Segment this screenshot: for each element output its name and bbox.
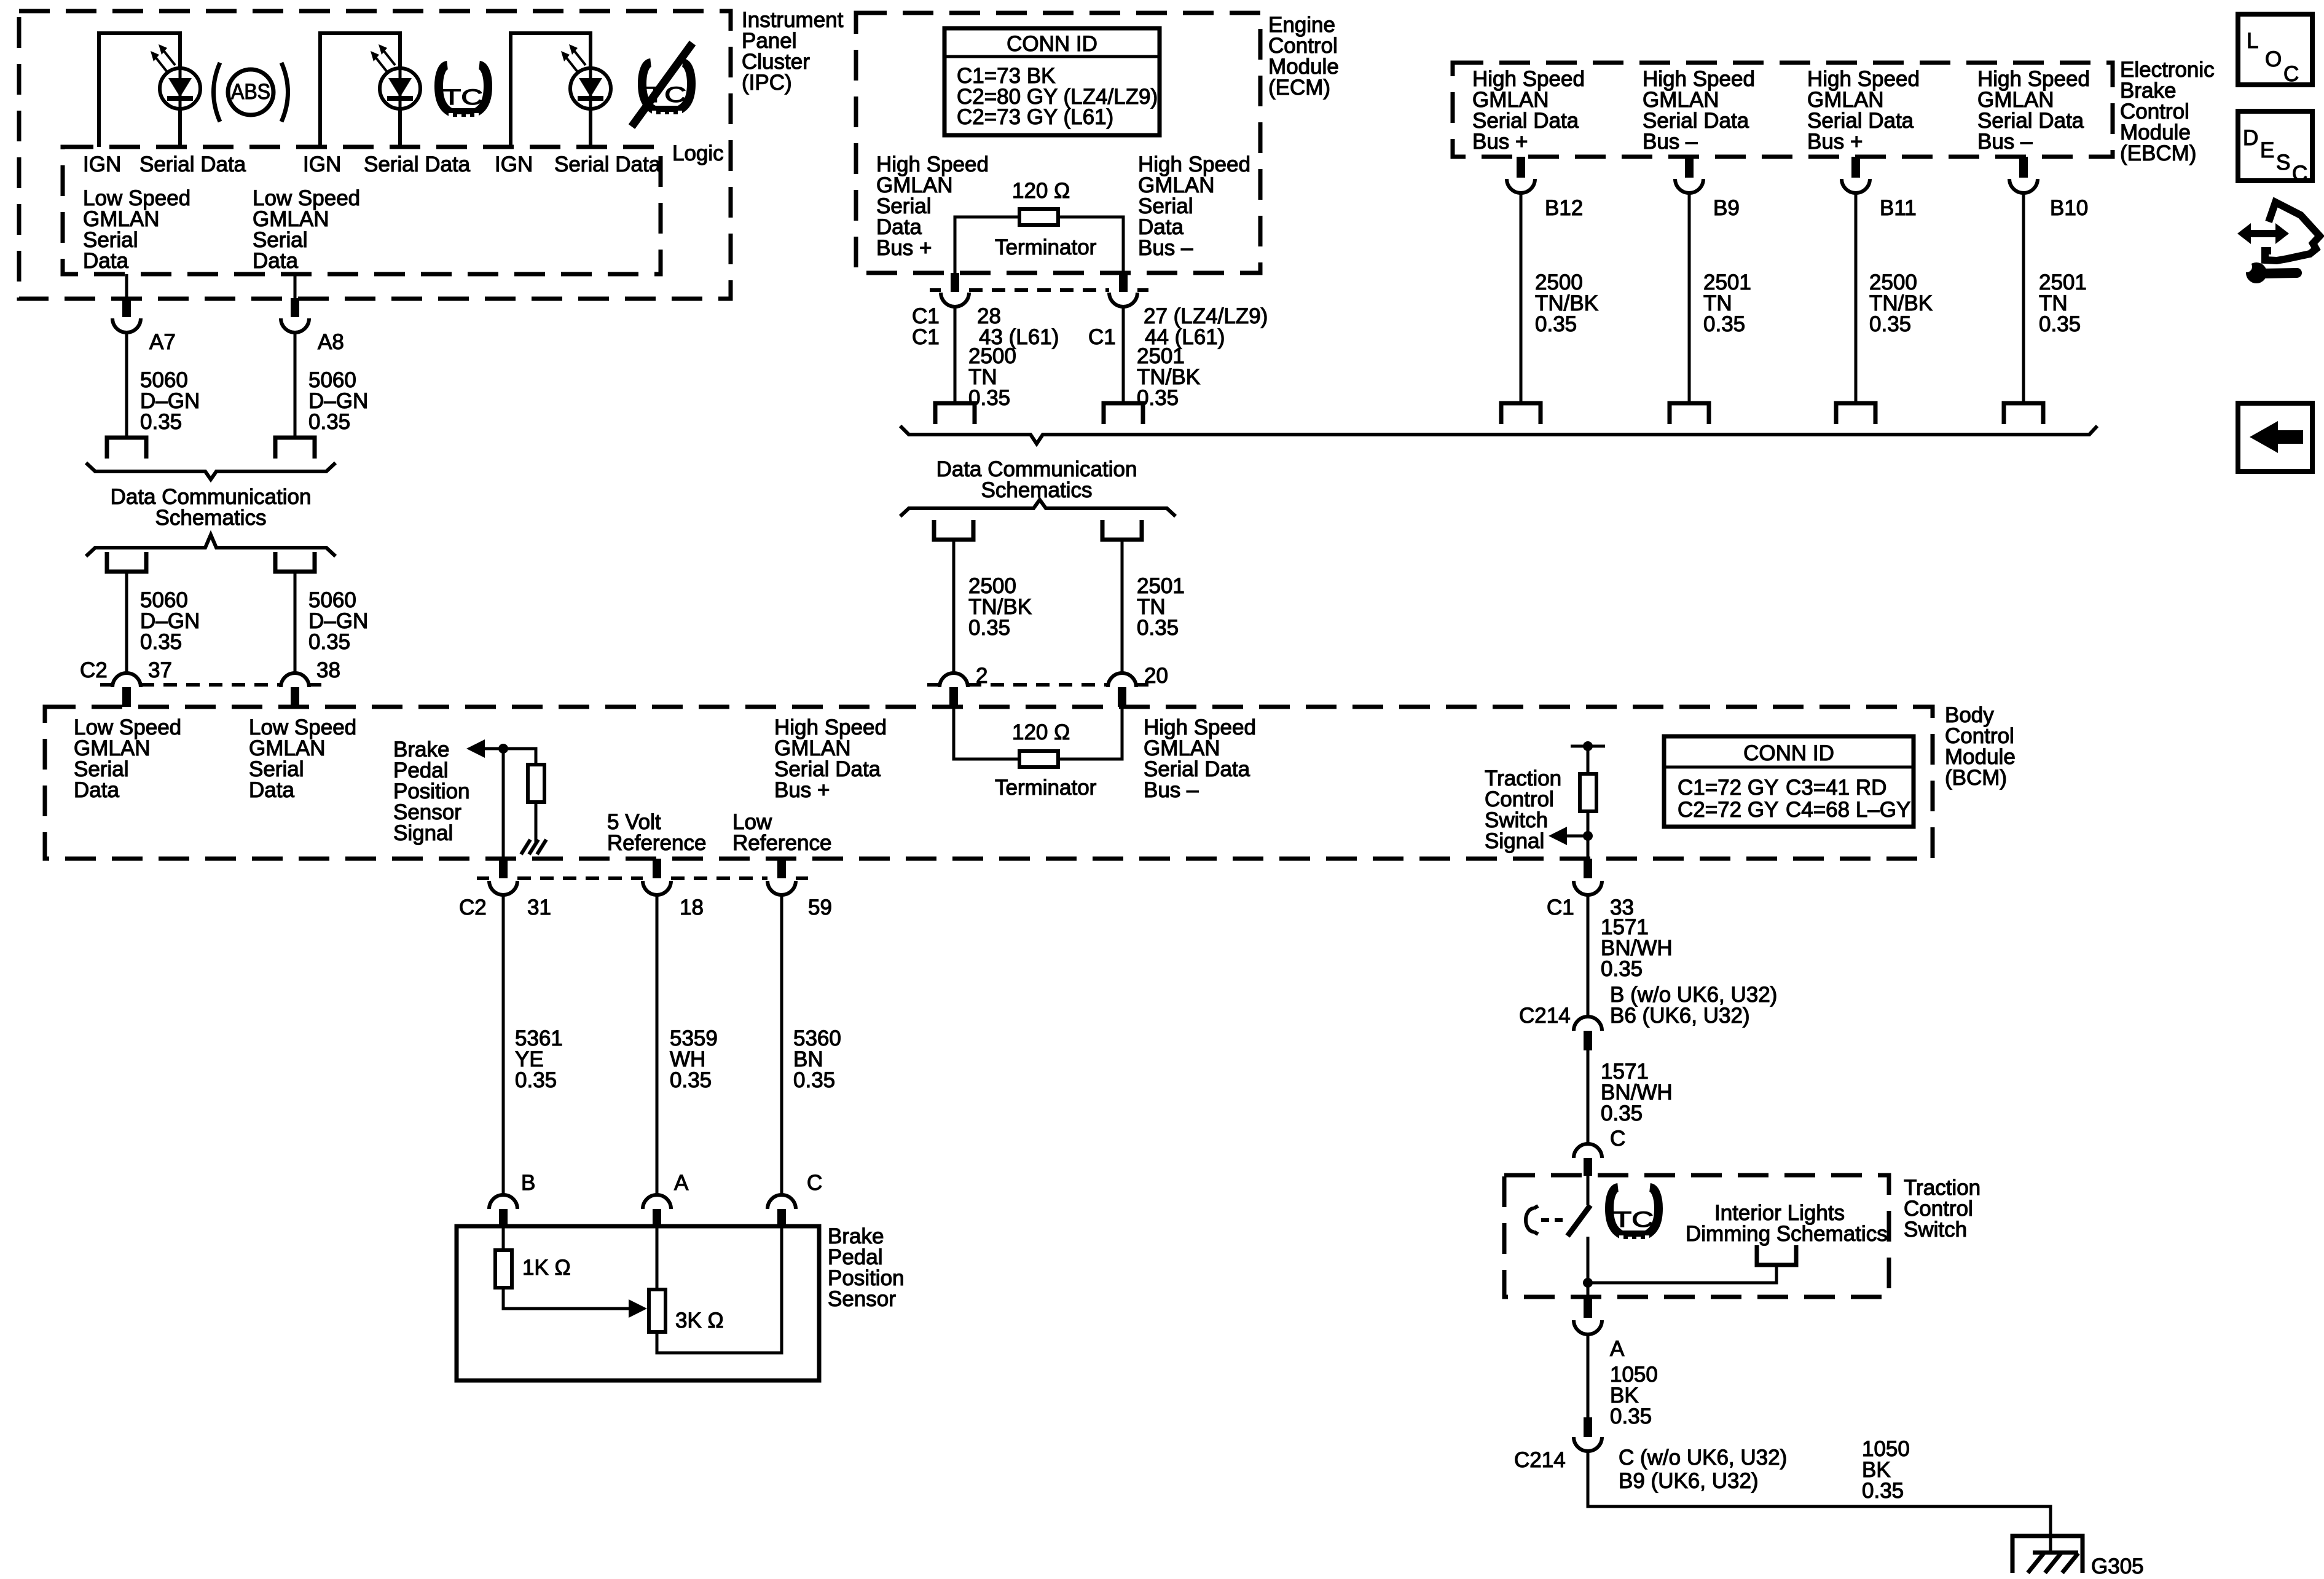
svg-text:C4=68 L–GY: C4=68 L–GY xyxy=(1786,798,1910,822)
svg-text:Data: Data xyxy=(83,249,128,273)
svg-text:D: D xyxy=(2243,126,2258,150)
svg-text:Bus –: Bus – xyxy=(1138,236,1193,260)
svg-text:(ECM): (ECM) xyxy=(1268,76,1330,100)
svg-text:IGN: IGN xyxy=(83,152,121,176)
svg-text:Serial Data: Serial Data xyxy=(554,152,661,176)
svg-text:C: C xyxy=(2292,162,2307,186)
svg-text:0.35: 0.35 xyxy=(308,630,350,654)
svg-text:B: B xyxy=(521,1171,535,1195)
svg-text:L: L xyxy=(2247,29,2258,53)
svg-text:Schematics: Schematics xyxy=(155,506,267,530)
svg-text:0.35: 0.35 xyxy=(308,410,350,434)
svg-text:B9: B9 xyxy=(1713,196,1740,220)
svg-text:Signal: Signal xyxy=(393,821,453,845)
svg-text:B11: B11 xyxy=(1880,196,1917,220)
svg-text:Bus –: Bus – xyxy=(1977,130,2033,154)
svg-text:Terminator: Terminator xyxy=(995,776,1097,800)
svg-text:0.35: 0.35 xyxy=(670,1068,712,1092)
svg-text:Serial Data: Serial Data xyxy=(139,152,246,176)
svg-text:0.35: 0.35 xyxy=(140,630,182,654)
svg-text:0.35: 0.35 xyxy=(1862,1479,1904,1503)
svg-text:Sensor: Sensor xyxy=(828,1287,896,1311)
svg-text:ABS: ABS xyxy=(231,80,270,104)
svg-text:0.35: 0.35 xyxy=(793,1068,835,1092)
svg-text:CONN ID: CONN ID xyxy=(1743,741,1834,765)
svg-text:0.35: 0.35 xyxy=(140,410,182,434)
svg-text:120 Ω: 120 Ω xyxy=(1012,179,1070,203)
svg-text:0.35: 0.35 xyxy=(1703,312,1745,336)
svg-text:C3=41 RD: C3=41 RD xyxy=(1786,776,1886,800)
svg-text:C214: C214 xyxy=(1519,1004,1571,1028)
svg-text:37: 37 xyxy=(148,658,172,682)
svg-text:0.35: 0.35 xyxy=(1610,1404,1652,1428)
svg-text:Bus –: Bus – xyxy=(1643,130,1698,154)
svg-text:IGN: IGN xyxy=(303,152,341,176)
svg-text:IGN: IGN xyxy=(495,152,533,176)
svg-text:Terminator: Terminator xyxy=(995,235,1097,259)
svg-text:Data: Data xyxy=(249,778,294,802)
svg-text:Bus +: Bus + xyxy=(774,778,830,802)
svg-text:A: A xyxy=(674,1171,689,1195)
svg-text:B6 (UK6, U32): B6 (UK6, U32) xyxy=(1610,1004,1750,1028)
svg-text:B9 (UK6, U32): B9 (UK6, U32) xyxy=(1619,1469,1759,1493)
svg-text:Serial Data: Serial Data xyxy=(364,152,471,176)
svg-text:C: C xyxy=(2283,62,2299,86)
svg-text:3K Ω: 3K Ω xyxy=(675,1309,724,1333)
svg-text:Signal: Signal xyxy=(1485,829,1544,853)
svg-text:1K Ω: 1K Ω xyxy=(522,1256,571,1280)
svg-text:0.35: 0.35 xyxy=(1601,957,1643,981)
svg-text:0.35: 0.35 xyxy=(1869,312,1911,336)
svg-text:0.35: 0.35 xyxy=(515,1068,557,1092)
svg-text:C214: C214 xyxy=(1514,1448,1566,1472)
svg-text:(IPC): (IPC) xyxy=(742,71,792,95)
svg-text:A: A xyxy=(1610,1337,1625,1361)
svg-text:120 Ω: 120 Ω xyxy=(1012,720,1070,744)
svg-text:S: S xyxy=(2276,151,2290,175)
svg-text:C1: C1 xyxy=(912,325,940,349)
svg-text:Dimming Schematics: Dimming Schematics xyxy=(1686,1222,1888,1246)
svg-text:E: E xyxy=(2260,138,2274,162)
svg-text:Data: Data xyxy=(253,249,298,273)
svg-text:Logic: Logic xyxy=(672,141,724,165)
svg-text:0.35: 0.35 xyxy=(1601,1101,1643,1125)
svg-text:0.35: 0.35 xyxy=(1535,312,1577,336)
svg-text:Reference: Reference xyxy=(607,831,706,855)
svg-text:38: 38 xyxy=(316,658,340,682)
svg-text:CONN ID: CONN ID xyxy=(1007,32,1097,56)
svg-text:31: 31 xyxy=(527,896,551,919)
svg-text:Schematics: Schematics xyxy=(981,478,1093,502)
svg-text:Bus –: Bus – xyxy=(1144,778,1199,802)
svg-text:0.35: 0.35 xyxy=(2039,312,2081,336)
svg-text:C (w/o UK6, U32): C (w/o UK6, U32) xyxy=(1619,1446,1787,1470)
svg-text:C1=72 GY: C1=72 GY xyxy=(1678,776,1778,800)
svg-text:C2: C2 xyxy=(80,658,108,682)
svg-text:C1: C1 xyxy=(1547,896,1574,919)
svg-text:B12: B12 xyxy=(1545,196,1583,220)
svg-text:0.35: 0.35 xyxy=(1137,616,1179,640)
svg-text:G305: G305 xyxy=(2091,1554,2144,1578)
svg-text:C1: C1 xyxy=(1088,325,1116,349)
svg-text:C2=73 GY (L61): C2=73 GY (L61) xyxy=(957,105,1113,129)
svg-text:Bus +: Bus + xyxy=(1472,130,1528,154)
svg-text:B10: B10 xyxy=(2050,196,2088,220)
svg-text:18: 18 xyxy=(680,896,704,919)
svg-text:59: 59 xyxy=(808,896,832,919)
svg-text:(BCM): (BCM) xyxy=(1945,766,2007,790)
svg-text:A8: A8 xyxy=(318,330,344,354)
svg-text:Reference: Reference xyxy=(732,831,831,855)
svg-text:Data: Data xyxy=(74,778,119,802)
svg-text:Bus +: Bus + xyxy=(876,236,932,260)
svg-text:C: C xyxy=(807,1171,822,1195)
svg-text:Switch: Switch xyxy=(1904,1218,1967,1242)
svg-text:(EBCM): (EBCM) xyxy=(2120,141,2196,165)
svg-text:Bus +: Bus + xyxy=(1807,130,1863,154)
svg-text:C2: C2 xyxy=(459,896,487,919)
svg-text:A7: A7 xyxy=(149,330,176,354)
svg-text:0.35: 0.35 xyxy=(968,616,1010,640)
svg-text:C2=72 GY: C2=72 GY xyxy=(1678,798,1778,822)
svg-text:O: O xyxy=(2265,47,2282,71)
svg-text:C: C xyxy=(1610,1127,1625,1151)
